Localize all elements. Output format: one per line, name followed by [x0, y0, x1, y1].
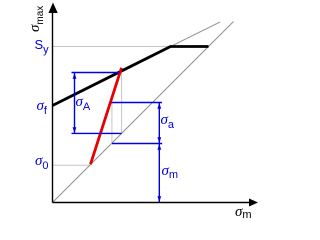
- failure line extension: [171, 22, 221, 47]
- sigma_a label: [161, 113, 175, 128]
- sigma_m down arrow: [157, 196, 161, 202]
- y axis label sigma_max (rotated): [28, 5, 43, 31]
- Sy gridline: [53, 46, 171, 48]
- x axis: [53, 202, 251, 204]
- Sy label: [35, 38, 49, 52]
- sigmaA up arrow: [73, 73, 77, 79]
- sigma_m dimension line: [158, 144, 160, 203]
- projection line from red top point: [121, 73, 123, 133]
- sigma0 gridline: [53, 164, 90, 166]
- sigma_a down arrow: [157, 137, 161, 143]
- sigma_m up arrow: [157, 144, 161, 150]
- sigma_a top cap: [111, 102, 162, 104]
- sigmaA down arrow: [73, 127, 77, 133]
- sigma_A label: [76, 95, 91, 110]
- projection line from red mid point: [111, 103, 113, 143]
- sigmaA dimension line: [74, 73, 76, 134]
- y axis arrowhead: [48, 3, 57, 14]
- 45 degree diagonal: [53, 22, 234, 203]
- sigma_a dimension line: [158, 103, 160, 144]
- sigmaA top cap: [72, 72, 121, 74]
- sigma_m label: [162, 164, 179, 179]
- x axis arrowhead: [249, 199, 258, 207]
- mid separator line: [112, 143, 162, 145]
- load line (red): [91, 68, 122, 165]
- x axis label sigma_m: [235, 205, 252, 220]
- sigmaA bottom cap: [72, 132, 122, 134]
- failure line (thick black): [53, 47, 209, 106]
- sigma_0 label: [35, 154, 49, 169]
- sigma_a up arrow: [157, 103, 161, 109]
- sigma_f label: [37, 99, 47, 114]
- y axis: [52, 10, 54, 203]
